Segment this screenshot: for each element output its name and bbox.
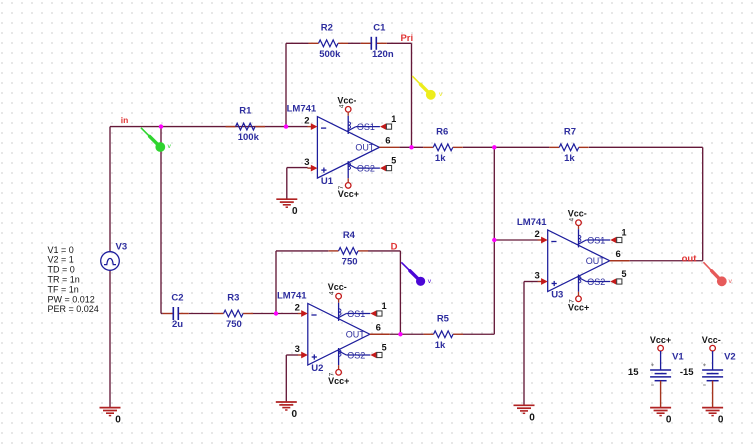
voltage probe marker (purple) at net D [401,262,431,286]
resistor R4 [329,230,369,268]
svg-text:OUT: OUT [586,256,606,266]
svg-text:7: 7 [568,299,575,303]
resistor R5 [424,313,464,351]
svg-text:C2: C2 [171,293,183,304]
svg-text:LM741: LM741 [517,217,547,228]
svg-text:Pri: Pri [400,33,413,44]
svg-text:Vcc-: Vcc- [337,95,356,105]
wire: R3 to U2 pin2 [253,313,298,315]
voltage source V3 (VPULSE) [101,252,120,271]
svg-text:PER = 0.024: PER = 0.024 [48,304,99,314]
svg-text:3: 3 [295,344,300,355]
svg-text:Vcc+: Vcc+ [568,303,589,313]
svg-text:1k: 1k [435,153,446,164]
svg-text:1k: 1k [435,340,446,351]
wire: out node to U3 output [630,260,703,262]
wire: C1 to right corner [387,42,412,44]
svg-text:OUT: OUT [355,143,375,153]
svg-text:V3: V3 [116,242,128,253]
svg-text:7: 7 [328,372,335,376]
ground 0 below V2 [702,408,724,426]
svg-text:U1: U1 [321,176,334,187]
svg-text:3: 3 [304,157,309,168]
op-amp U3 (LM741) [538,220,630,302]
svg-text:V1 = 0: V1 = 0 [48,245,74,255]
svg-text:Vcc-: Vcc- [702,335,721,345]
svg-text:U2: U2 [311,363,323,374]
svg-text:750: 750 [226,319,242,330]
ground 0 below V1 [650,408,672,426]
svg-text:R4: R4 [343,230,356,241]
svg-text:1: 1 [382,301,387,311]
wire: in rail to U1 pin2 [110,126,308,128]
svg-text:TR = 1n: TR = 1n [48,275,80,285]
wire: U2 out to R5 [390,333,424,335]
wire: feedback right vertical [411,43,413,147]
svg-text:4: 4 [569,218,576,222]
capacitor C2 [163,293,189,331]
svg-text:TF = 1n: TF = 1n [48,284,79,294]
junction in node / C2 branch [159,124,163,128]
svg-text:C1: C1 [373,22,386,33]
svg-text:U3: U3 [551,289,563,300]
wire: R6 to R7 [463,146,550,148]
svg-text:V2 = 1: V2 = 1 [48,255,74,265]
svg-text:PW = 0.012: PW = 0.012 [48,294,95,304]
svg-text:750: 750 [342,257,358,268]
svg-text:6: 6 [616,249,621,260]
resistor R3 [214,293,254,331]
junction U3 pin2 tap [492,238,496,242]
voltage probe marker (red) at net out [703,262,732,286]
svg-text:OS1: OS1 [357,122,375,132]
junction R6-R7 / mid vertical [492,145,496,149]
svg-text:out: out [682,253,698,264]
svg-text:0: 0 [292,206,298,217]
ground 0 below V3 [100,408,122,426]
wire: U1 feedback left vertical [285,43,287,126]
wire: feedback top to R2 [286,42,309,44]
op-amp U2 (LM741) [298,293,390,375]
wire: R7 to top-right corner [589,146,703,148]
wire: R5 to corner [463,333,494,335]
svg-text:1: 1 [391,114,396,124]
ground 0 below U3 [514,405,536,423]
svg-text:5: 5 [391,155,396,165]
svg-text:R7: R7 [564,126,576,137]
ground 0 below U1 [276,199,298,217]
svg-text:3: 3 [535,270,540,281]
svg-text:0: 0 [666,415,672,426]
wire: in node down to V3 [109,127,111,252]
wire: U1 pin3 down to ground [286,168,288,200]
svg-text:v: v [729,278,733,285]
svg-text:0: 0 [718,415,724,426]
svg-text:LM741: LM741 [277,291,307,302]
svg-text:Vcc-: Vcc- [328,282,347,292]
svg-text:2: 2 [304,115,309,126]
svg-text:15: 15 [628,367,639,378]
svg-text:Vcc+: Vcc+ [650,335,671,345]
svg-text:500k: 500k [319,49,341,60]
voltage probe marker (green) at net in [141,128,172,152]
wire: U2 feedback right vertical [399,251,401,334]
wire: right vertical to out node [702,147,704,260]
svg-text:OS1: OS1 [587,235,605,245]
svg-text:R3: R3 [227,293,239,304]
resistor R6 [423,126,463,164]
svg-text:2: 2 [295,302,300,313]
resistor R2 [309,22,349,60]
svg-text:OS1: OS1 [347,309,365,319]
svg-text:4: 4 [329,291,336,295]
op-amp U1 (LM741) [307,107,399,189]
svg-text:D: D [391,241,398,252]
svg-text:v: v [428,278,432,285]
svg-text:1k: 1k [564,153,575,164]
wire: U1 out to R6 [399,146,423,148]
svg-text:0: 0 [292,409,298,420]
wire: U3 pin3 [524,281,538,283]
svg-text:6: 6 [376,322,381,333]
svg-text:R2: R2 [321,22,333,33]
svg-text:6: 6 [385,136,390,147]
voltage source V1 (VDC) [650,345,671,407]
junction U2 pin2 / feedback [274,311,278,315]
wire: node to U3 pin2 [494,239,538,241]
wire: in node down to C2 [160,127,162,314]
svg-text:1: 1 [621,228,626,238]
svg-text:V1: V1 [672,352,684,363]
wire: R2 to C1 [348,42,361,44]
svg-text:OUT: OUT [346,329,366,339]
svg-text:100k: 100k [238,132,260,143]
svg-text:Vcc+: Vcc+ [328,376,349,386]
svg-text:5: 5 [621,269,626,279]
svg-text:7: 7 [338,185,345,189]
svg-text:2u: 2u [172,319,183,330]
capacitor C1 [361,22,394,60]
svg-text:R5: R5 [437,313,450,324]
svg-text:TD = 0: TD = 0 [48,265,75,275]
svg-text:R1: R1 [239,106,252,117]
svg-text:V2: V2 [724,352,736,363]
junction U1 out / feedback [409,145,413,149]
svg-text:-15: -15 [680,367,694,378]
svg-text:v: v [439,91,443,98]
resistor R7 [549,126,589,164]
wire: C2 to R3 [189,313,214,315]
svg-text:OS2: OS2 [587,277,605,287]
junction U1 pin2 / feedback [284,124,288,128]
wire: U2 pin3 [286,354,298,356]
svg-text:LM741: LM741 [287,104,317,115]
svg-text:4: 4 [338,104,345,108]
resistor R1 [226,106,265,144]
voltage source V2 (VDC) [702,345,723,407]
wire: U3 pin3 down to ground [523,282,525,406]
svg-text:v: v [168,143,172,150]
wire: feedback top to R4 [276,250,328,252]
wire: U2 feedback left vertical [275,251,277,314]
wire: mid vertical to U1 out rail [493,147,495,334]
svg-text:0: 0 [529,412,535,423]
svg-text:2: 2 [535,229,540,240]
svg-text:OS2: OS2 [357,163,375,173]
junction U2 out / feedback [398,332,402,336]
svg-text:120n: 120n [372,49,394,60]
wire: V3 to ground [109,270,111,407]
wire: corner to C2 [161,313,163,315]
svg-text:OS2: OS2 [347,350,365,360]
svg-text:R6: R6 [436,126,448,137]
svg-text:in: in [121,115,129,125]
svg-text:Vcc+: Vcc+ [338,189,359,199]
wire: R4 to corner [368,250,400,252]
V3 source parameter text block [48,245,99,314]
svg-text:5: 5 [382,342,387,352]
wire: U2 pin3 down to ground [285,355,287,402]
voltage probe marker (yellow) at net Pri [412,76,443,100]
svg-text:Vcc-: Vcc- [568,209,587,219]
wire: U1 pin3 [287,167,308,169]
ground 0 below U2 [276,402,298,420]
svg-text:0: 0 [115,415,121,426]
